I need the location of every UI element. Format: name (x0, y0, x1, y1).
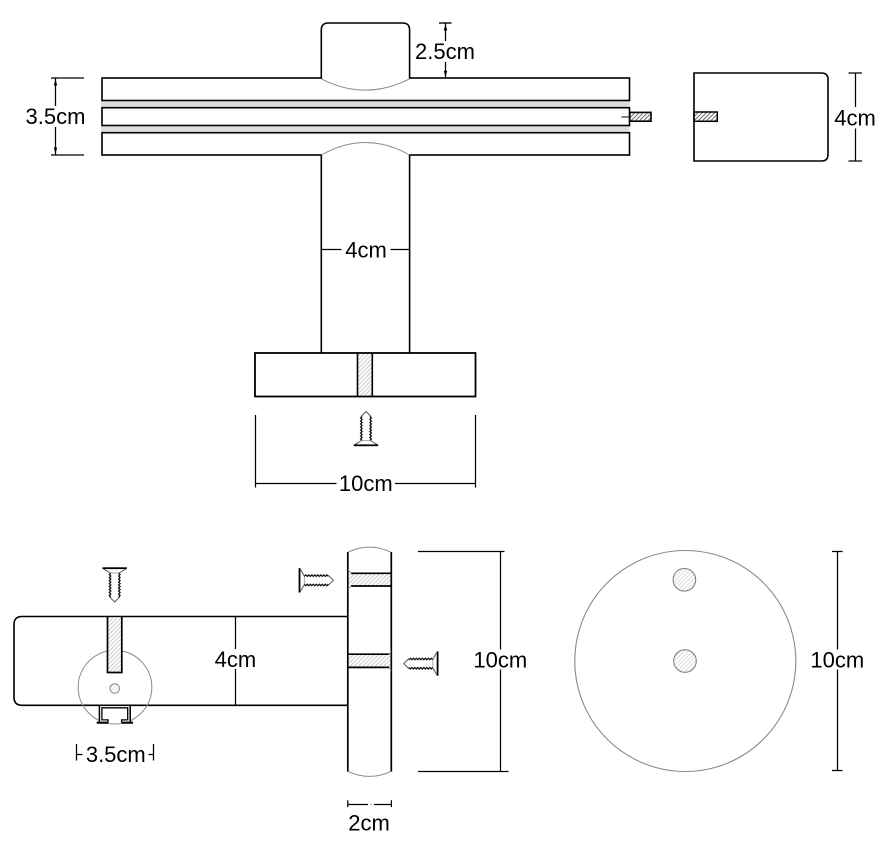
svg-text:2.5cm: 2.5cm (415, 39, 475, 64)
svg-text:4cm: 4cm (215, 647, 257, 672)
svg-text:2cm: 2cm (348, 810, 390, 835)
svg-text:4cm: 4cm (834, 106, 876, 131)
svg-text:4cm: 4cm (345, 238, 387, 263)
svg-text:10cm: 10cm (810, 647, 864, 672)
svg-text:10cm: 10cm (339, 471, 393, 496)
svg-text:10cm: 10cm (473, 647, 527, 672)
svg-text:3.5cm: 3.5cm (26, 104, 86, 129)
svg-text:3.5cm: 3.5cm (86, 742, 146, 767)
